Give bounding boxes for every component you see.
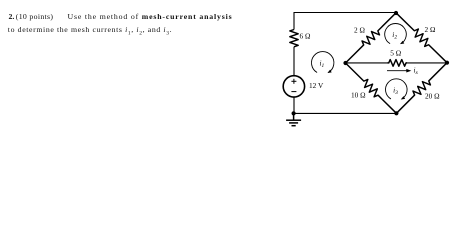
wire middle left stub [346,62,388,64]
problem statement line 1 [9,13,15,21]
mesh arrow i2 [385,23,407,43]
label 6ohm [300,32,311,41]
svg-text:i1: i1 [320,59,325,70]
resistor 6ohm [290,30,298,47]
svg-text:10 Ω: 10 Ω [351,91,366,100]
svg-text:ix: ix [414,65,419,76]
node top [394,11,398,15]
voltage source minus sign [291,91,296,93]
svg-text:2 Ω: 2 Ω [425,25,436,34]
label 5ohm [390,48,401,57]
current arrow ix [387,70,408,72]
svg-text:6 Ω: 6 Ω [300,32,311,41]
label 20ohm [425,91,440,100]
svg-text:2 Ω: 2 Ω [354,26,365,35]
voltage source V1 12V circle [283,76,304,97]
node right [445,61,449,65]
svg-text:12 V: 12 V [309,81,324,90]
svg-text:i3: i3 [393,85,398,96]
label 10ohm [351,91,366,100]
label i1 [320,59,325,70]
ground [286,113,301,125]
resistor 2ohm left [346,13,397,63]
svg-text:5 Ω: 5 Ω [390,48,401,57]
label i2 [392,30,397,41]
problem statement line 2 [8,26,172,37]
mesh arrow i2 head [400,41,404,44]
resistor 2ohm right [396,13,447,63]
wire source to ground node [293,97,295,114]
mesh arrow i3 [385,79,407,99]
voltage source plus sign [291,79,296,84]
svg-text:i2: i2 [392,30,397,41]
node bottom [394,111,398,115]
resistor 20ohm [396,63,447,114]
wire 6ohm to source [293,47,295,76]
resistor 10ohm [346,63,397,113]
label i3 [393,85,398,96]
mesh arrow i1 [312,52,334,73]
label 2ohm left [354,26,365,35]
wire middle right stub [407,62,447,64]
label ix [414,65,419,76]
resistor 5ohm [388,60,408,67]
wire left upper (corner to 6ohm) [293,13,295,30]
current arrow ix head [406,69,411,73]
label 2ohm right [425,25,436,34]
mesh arrow i1 head [327,70,331,73]
wire top (corner to top node) [294,12,397,14]
svg-text:20 Ω: 20 Ω [425,91,440,100]
mesh arrow i3 head [401,96,405,99]
wire bottom (ground node to bottom node) [294,112,397,114]
node ground [292,111,296,115]
node left [343,61,347,65]
label 12V [309,81,324,90]
